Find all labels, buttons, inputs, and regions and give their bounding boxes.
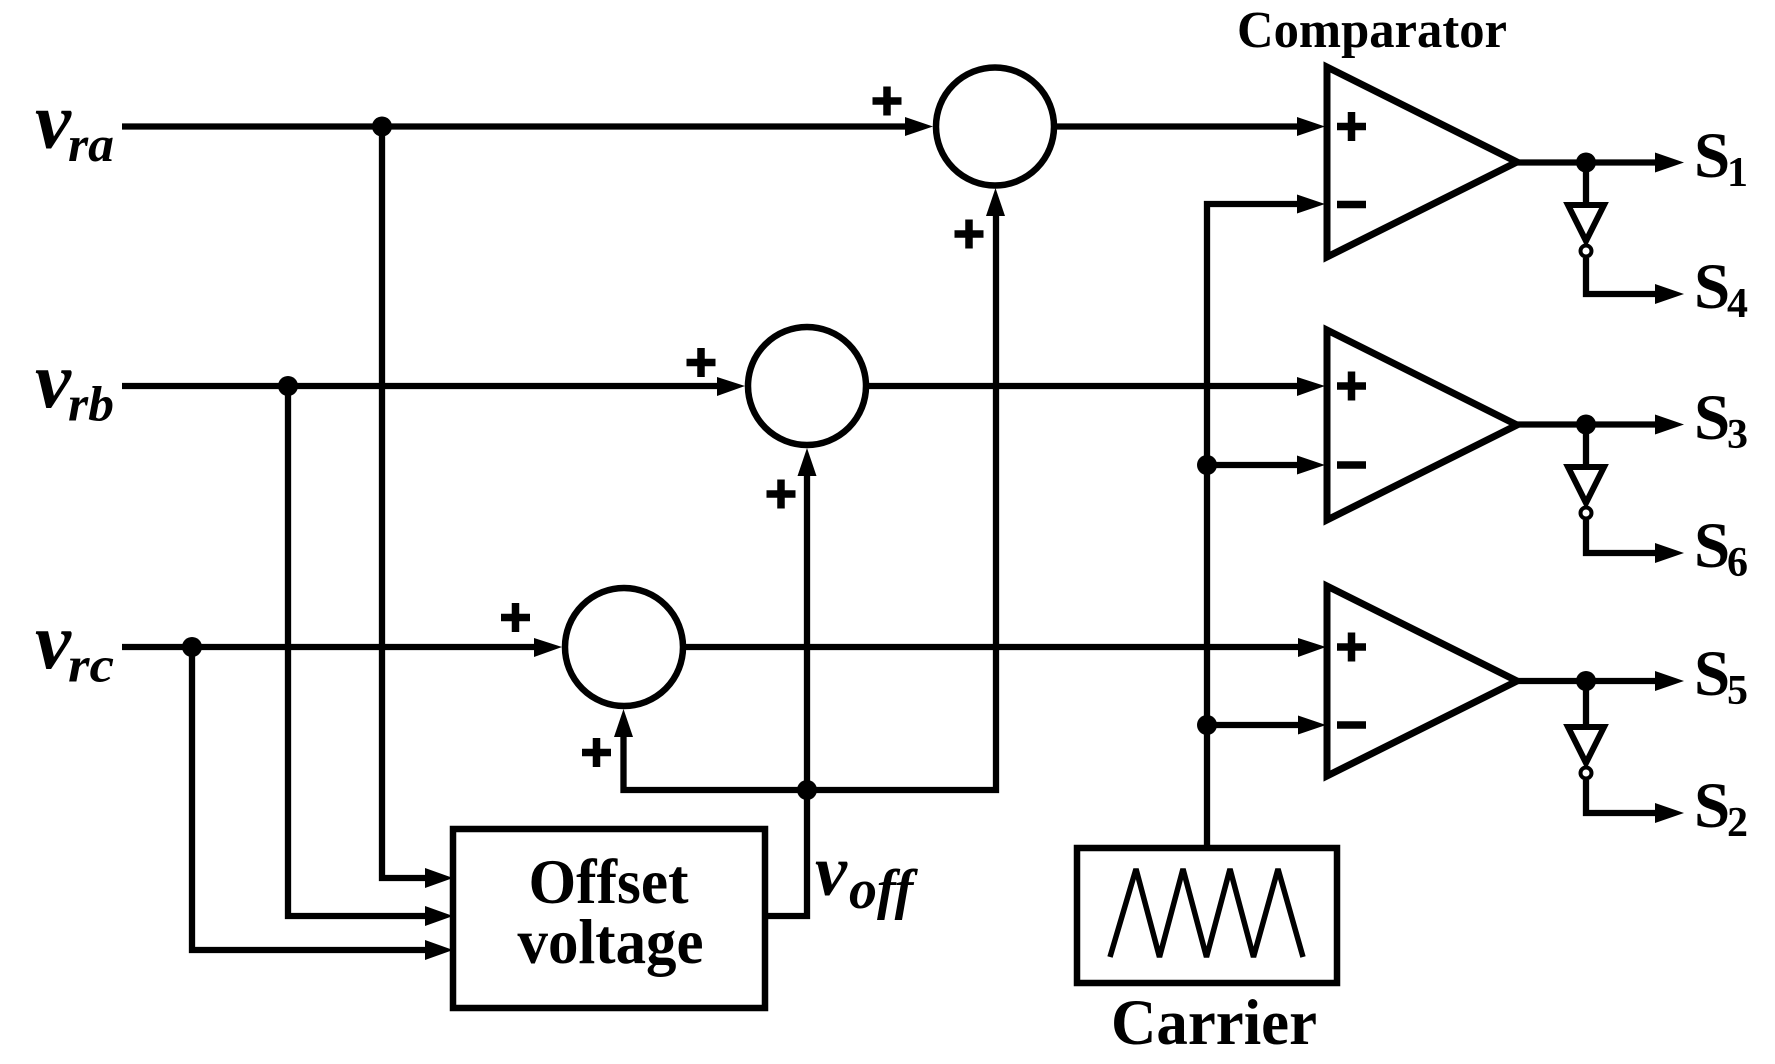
- arrowhead into circle1 bottom: [986, 188, 1005, 216]
- arrowhead comparator1 minus input: [1297, 195, 1325, 214]
- junction dot S5: [1576, 671, 1596, 691]
- node v_off label: [815, 831, 919, 921]
- node v_rc label: [35, 596, 114, 693]
- summing junction circle 3: [565, 588, 683, 706]
- inverter 3 bubble: [1581, 768, 1592, 779]
- arrowhead S6: [1655, 543, 1684, 563]
- wire circle1 to comparator1 plus: [1057, 123, 1301, 129]
- plus sign circle2 bottom input: [767, 480, 796, 509]
- junction dot carrier branch comp2: [1197, 455, 1217, 475]
- arrowhead comparator2 plus input: [1297, 377, 1325, 396]
- svg-text:v: v: [35, 335, 72, 425]
- summing junction circle 1: [936, 68, 1054, 186]
- svg-text:Comparator: Comparator: [1237, 2, 1507, 59]
- arrowhead S2: [1655, 803, 1684, 823]
- plus sign circle1 input: [873, 87, 902, 116]
- svg-text:4: 4: [1727, 281, 1748, 327]
- arrowhead comparator2 minus input: [1297, 456, 1325, 475]
- svg-text:rc: rc: [68, 637, 114, 693]
- junction dot S1: [1576, 153, 1596, 173]
- wire v_off up to circle1: [624, 212, 997, 790]
- wire v_rb drop to offset box: [288, 386, 429, 916]
- junction dot carrier branch comp3: [1197, 715, 1217, 735]
- minus label comparator3: [1337, 721, 1366, 729]
- offset voltage box: [453, 829, 765, 1008]
- summing junction circle 2: [748, 327, 866, 445]
- wire carrier branch to comparator2 minus: [1207, 462, 1301, 468]
- arrowhead comparator3 plus input: [1298, 638, 1326, 657]
- plus sign circle1 bottom input: [955, 220, 984, 249]
- wire inverter1 to S4: [1586, 258, 1659, 294]
- node S2 label: [1694, 770, 1748, 846]
- inverter 1 triangle: [1568, 205, 1604, 241]
- plus label comparator2: [1337, 372, 1366, 401]
- node S1 label: [1694, 120, 1748, 196]
- arrowhead into circle2: [717, 377, 745, 396]
- wire inverter3 to S2: [1586, 780, 1659, 813]
- svg-text:S: S: [1694, 382, 1730, 454]
- svg-text:S: S: [1694, 638, 1730, 710]
- inverter 2 triangle: [1568, 467, 1604, 503]
- junction dot v_rc: [182, 637, 202, 657]
- svg-text:rb: rb: [68, 376, 114, 432]
- wire into inverter 1: [1583, 163, 1589, 206]
- comparator U1 triangle: [1327, 67, 1517, 257]
- inverter 1 bubble: [1581, 246, 1592, 257]
- wire v_ra row: [122, 123, 907, 129]
- inverter 3 triangle: [1568, 727, 1604, 763]
- carrier box: [1077, 848, 1337, 983]
- wire v_rb row: [122, 383, 719, 389]
- plus sign circle2 input: [687, 348, 716, 377]
- wire comparator3 output: [1517, 678, 1659, 684]
- arrowhead S1: [1655, 153, 1684, 173]
- minus label comparator2: [1337, 461, 1366, 469]
- Carrier label: [1111, 987, 1317, 1059]
- minus label comparator1: [1337, 201, 1366, 209]
- svg-text:S: S: [1694, 251, 1730, 323]
- arrowhead into circle3 bottom: [614, 709, 633, 737]
- wire comparator2 output: [1517, 421, 1659, 427]
- wire inverter2 to S6: [1586, 520, 1659, 553]
- node v_ra label: [35, 76, 114, 173]
- wire carrier vertical to comparator1 minus: [1207, 204, 1301, 848]
- node S6 label: [1694, 510, 1748, 586]
- Comparator label: [1237, 2, 1507, 59]
- junction dot S3: [1576, 415, 1596, 435]
- plus label comparator3: [1337, 633, 1366, 662]
- arrowhead comparator3 minus input: [1298, 716, 1326, 735]
- comparator U2 triangle: [1327, 330, 1517, 520]
- inverter 2 bubble: [1581, 508, 1592, 519]
- arrowhead comparator1 plus input: [1297, 117, 1325, 136]
- plus sign circle3 bottom input: [582, 738, 611, 767]
- node v_rb label: [35, 335, 114, 432]
- svg-text:ra: ra: [68, 116, 114, 172]
- node S3 label: [1694, 382, 1748, 458]
- carrier triangle wave: [1110, 869, 1303, 957]
- wire v_rc drop to offset box: [192, 647, 429, 950]
- svg-text:v: v: [35, 596, 72, 686]
- svg-text:v: v: [35, 76, 72, 166]
- wire v_off up to circle2: [765, 472, 807, 916]
- node S4 label: [1694, 251, 1748, 327]
- wire comparator1 output: [1517, 159, 1659, 165]
- svg-text:v: v: [815, 831, 848, 911]
- svg-text:5: 5: [1727, 668, 1748, 714]
- svg-text:S: S: [1694, 120, 1730, 192]
- svg-text:off: off: [849, 859, 919, 921]
- junction dot v_ra: [372, 117, 392, 137]
- comparator U3 triangle: [1327, 586, 1517, 776]
- arrowhead S4: [1655, 284, 1684, 304]
- svg-text:Carrier: Carrier: [1111, 987, 1317, 1059]
- arrowhead into offset box top input: [425, 868, 453, 888]
- wire v_ra drop to offset box: [382, 127, 429, 879]
- wire carrier branch to comparator3 minus: [1207, 722, 1302, 728]
- arrowhead into circle2 bottom: [798, 448, 817, 476]
- svg-text:voltage: voltage: [518, 906, 704, 977]
- plus sign circle3 input: [501, 603, 530, 632]
- svg-text:1: 1: [1727, 150, 1748, 196]
- svg-text:S: S: [1694, 510, 1730, 582]
- plus label comparator1: [1337, 112, 1366, 141]
- arrowhead into offset box middle input: [425, 906, 453, 926]
- wire into inverter 2: [1583, 425, 1589, 468]
- svg-text:6: 6: [1727, 540, 1748, 586]
- arrowhead into circle1: [905, 117, 933, 136]
- svg-text:2: 2: [1727, 800, 1748, 846]
- svg-text:S: S: [1694, 770, 1730, 842]
- wire circle3 to comparator3 plus: [686, 644, 1302, 650]
- arrowhead into offset box bottom input: [425, 940, 453, 960]
- wire circle2 to comparator2 plus: [869, 383, 1301, 389]
- node S5 label: [1694, 638, 1748, 714]
- wire v_rc row: [122, 644, 536, 650]
- junction dot v_rb: [278, 376, 298, 396]
- arrowhead S3: [1655, 415, 1684, 435]
- arrowhead into circle3: [534, 638, 562, 657]
- junction dot v_off line: [797, 780, 817, 800]
- arrowhead S5: [1655, 671, 1684, 691]
- wire into inverter 3: [1583, 681, 1589, 727]
- svg-text:3: 3: [1727, 412, 1748, 458]
